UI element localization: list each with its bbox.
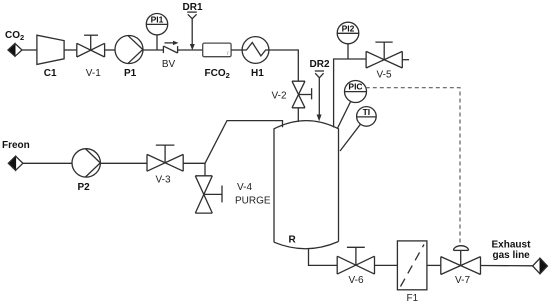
reactor R vessel (274, 121, 339, 249)
svg-text:TI: TI (363, 107, 371, 117)
node exhaust gas line label (492, 240, 532, 262)
node CO2 inlet label (5, 30, 24, 42)
wire junction down to V-4 (204, 163, 206, 176)
svg-text:V-5: V-5 (377, 70, 392, 81)
control line PIC to V-7 (dashed) (366, 88, 460, 244)
pump P2 (72, 149, 100, 193)
svg-text:H1: H1 (251, 68, 264, 79)
svg-text:F1: F1 (407, 293, 419, 304)
svg-text:V-6: V-6 (349, 275, 364, 286)
svg-text:PI2: PI2 (342, 23, 355, 33)
svg-text:R: R (289, 235, 297, 246)
valve V-4 (purge, vertical) (195, 176, 271, 213)
wire H1 to corner to V-2 (269, 50, 298, 81)
svg-text:PURGE: PURGE (235, 196, 271, 207)
svg-text:P2: P2 (78, 182, 91, 193)
wire F1 to V-7 (427, 264, 441, 266)
wire CO2 inlet to C1 (22, 49, 37, 51)
wire C1 to V-1 (64, 49, 77, 51)
svg-text:V-2: V-2 (272, 90, 287, 101)
svg-text:V-4: V-4 (237, 182, 252, 193)
valve V-3 (147, 145, 183, 185)
wire junction to reactor feed (205, 121, 283, 164)
svg-text:V-1: V-1 (86, 68, 101, 79)
valve V-1 (77, 35, 105, 79)
drain DR1 (183, 2, 203, 50)
node Freon inlet marker (8, 156, 23, 170)
wire V-1 to P1 (105, 49, 115, 51)
node exhaust marker (533, 258, 548, 274)
wire V-6 to F1 (375, 264, 398, 266)
wire V-3 to junction (183, 162, 205, 164)
pump P1 (115, 36, 143, 80)
filter F1 (397, 241, 427, 304)
instrument PI1 (146, 14, 167, 51)
svg-text:DR1: DR1 (183, 2, 203, 13)
wire P2 to V-3 (100, 162, 147, 164)
svg-text:PI1: PI1 (151, 14, 164, 24)
compressor C1 (37, 35, 64, 79)
wire Freon inlet to P2 (23, 162, 72, 164)
heat exchanger H1 (242, 37, 269, 79)
wire BV to FCO2 (178, 49, 203, 51)
valve V-5 (366, 42, 409, 80)
svg-text:P1: P1 (124, 68, 137, 79)
svg-text:DR2: DR2 (310, 59, 330, 70)
svg-text:V-7: V-7 (455, 275, 470, 286)
wire reactor outlet to V-6 (309, 249, 338, 266)
control valve V-7 (441, 246, 481, 286)
node CO2 inlet marker (8, 44, 22, 57)
wire reactor to PI2 riser and V-5 (334, 59, 367, 128)
wire FCO2 to H1 (231, 49, 242, 51)
valve V-2 (272, 81, 312, 108)
svg-text:PIC: PIC (348, 81, 362, 91)
wire V-2 to reactor dome (297, 108, 299, 122)
svg-text:C1: C1 (44, 68, 57, 79)
wire P1 to BV (143, 49, 163, 51)
flow controller FCO2 (203, 43, 231, 80)
drain DR2 (310, 59, 330, 121)
svg-text:Freon: Freon (2, 140, 30, 151)
wire V-7 to exhaust (481, 265, 533, 267)
instrument TI (340, 107, 376, 151)
instrument PI2 (337, 22, 359, 59)
svg-text:Exhaust: Exhaust (492, 240, 532, 251)
svg-text:BV: BV (162, 59, 176, 70)
svg-text:V-3: V-3 (156, 175, 171, 186)
instrument PIC (338, 81, 367, 129)
valve V-6 (337, 247, 374, 286)
svg-text:gas line: gas line (493, 250, 531, 261)
check valve BV (162, 41, 179, 70)
